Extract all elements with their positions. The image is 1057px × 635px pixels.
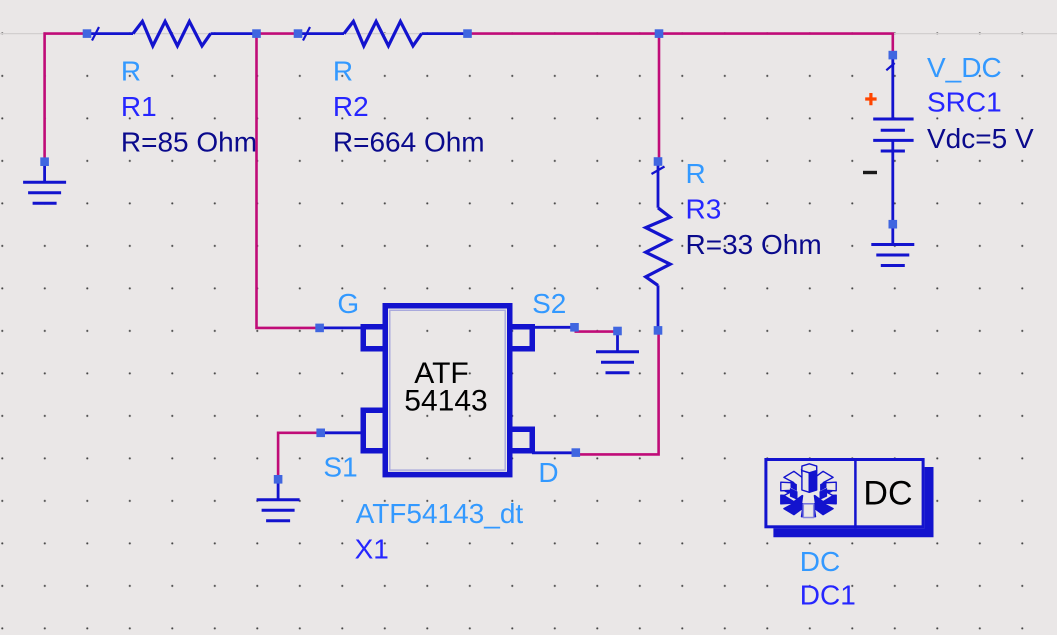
ground (left, R1) bbox=[23, 162, 66, 204]
ground (SRC1) bbox=[871, 224, 914, 265]
pin tab D bbox=[510, 429, 533, 451]
svg-text:G: G bbox=[337, 288, 359, 319]
svg-text:R: R bbox=[121, 56, 141, 87]
svg-text:DC1: DC1 bbox=[800, 580, 856, 611]
node R3 pin 2 bbox=[654, 326, 663, 335]
node left ground pin bbox=[40, 157, 49, 166]
stub wire G bbox=[320, 326, 363, 329]
transistor X1 body bbox=[385, 306, 510, 475]
node D pin bbox=[572, 448, 581, 457]
resistor R3 labels bbox=[686, 158, 822, 260]
svg-text:SRC1: SRC1 bbox=[927, 87, 1002, 118]
DC simulation controller DC1 bbox=[766, 458, 934, 537]
svg-text:ATF54143_dt: ATF54143_dt bbox=[356, 498, 524, 529]
wire: R2 right pin to SRC1 top bbox=[468, 34, 893, 56]
svg-text:D: D bbox=[538, 457, 558, 488]
svg-text:R: R bbox=[686, 158, 706, 189]
node R2 pin 1 bbox=[294, 29, 303, 38]
ground (S1) bbox=[257, 479, 300, 521]
node S1 pin bbox=[316, 429, 325, 438]
DC block gear icon bbox=[781, 464, 836, 518]
wire: top junction down to R3 top bbox=[658, 34, 661, 162]
svg-text:R1: R1 bbox=[121, 91, 157, 122]
svg-text:DC: DC bbox=[800, 546, 840, 577]
stub wire S1 bbox=[321, 431, 363, 434]
node junction R1-R2-gate bbox=[252, 29, 261, 38]
wire: R3 bottom down and left to drain D bbox=[576, 330, 659, 454]
svg-text:R=33 Ohm: R=33 Ohm bbox=[686, 229, 822, 260]
svg-text:Vdc=5 V: Vdc=5 V bbox=[927, 123, 1034, 154]
ground (S2) bbox=[596, 331, 639, 373]
svg-text:X1: X1 bbox=[355, 533, 389, 564]
resistor R2 labels bbox=[333, 56, 485, 158]
node S2 ground pin bbox=[613, 327, 622, 336]
svg-text:S2: S2 bbox=[532, 288, 566, 319]
stub wire S2 bbox=[532, 326, 575, 329]
pin tab G bbox=[363, 327, 385, 349]
resistor R1 labels bbox=[121, 56, 257, 158]
node junction top-R3 bbox=[655, 29, 664, 38]
wire: S1 pin left and down to S1 ground bbox=[278, 433, 321, 480]
wire: S2 pin to S2 ground bbox=[575, 330, 618, 333]
DC voltage source SRC1 bbox=[873, 55, 913, 224]
pin tab S1 bbox=[363, 410, 385, 451]
resistor R3 bbox=[646, 162, 671, 331]
wire: left top to R1 and down to ground bbox=[45, 34, 87, 162]
node R3 pin 1 bbox=[654, 157, 663, 166]
svg-text:54143: 54143 bbox=[404, 384, 487, 417]
transistor pin labels bbox=[323, 288, 566, 488]
node G pin bbox=[315, 324, 324, 333]
transistor part number text bbox=[404, 357, 487, 417]
resistor R1 bbox=[87, 21, 257, 46]
svg-text:R=85 Ohm: R=85 Ohm bbox=[121, 127, 257, 158]
svg-text:R: R bbox=[333, 56, 353, 87]
wire: R1 right pin to R2 left pin bbox=[257, 32, 299, 35]
SRC1 labels bbox=[927, 52, 1034, 154]
pin tab S2 bbox=[510, 327, 533, 349]
node S2 pin bbox=[570, 323, 579, 332]
plus terminal sign bbox=[865, 93, 876, 105]
minus terminal sign bbox=[863, 171, 877, 174]
node R2 pin 2 bbox=[463, 29, 472, 38]
node S1 ground pin bbox=[274, 475, 283, 484]
faint guide line bbox=[0, 33, 1057, 35]
node SRC1 minus pin bbox=[889, 220, 898, 229]
resistor R2 bbox=[298, 21, 468, 46]
svg-text:R=664 Ohm: R=664 Ohm bbox=[333, 127, 485, 158]
wire: R1 right junction down to gate G bbox=[257, 34, 320, 328]
svg-text:V_DC: V_DC bbox=[927, 52, 1002, 83]
stub wire D bbox=[532, 451, 576, 454]
node R1 pin 1 bbox=[83, 29, 92, 38]
svg-text:S1: S1 bbox=[323, 451, 357, 482]
svg-text:R3: R3 bbox=[686, 193, 722, 224]
svg-text:R2: R2 bbox=[333, 91, 369, 122]
node SRC1 plus pin bbox=[889, 51, 898, 60]
svg-text:DC: DC bbox=[863, 474, 912, 512]
